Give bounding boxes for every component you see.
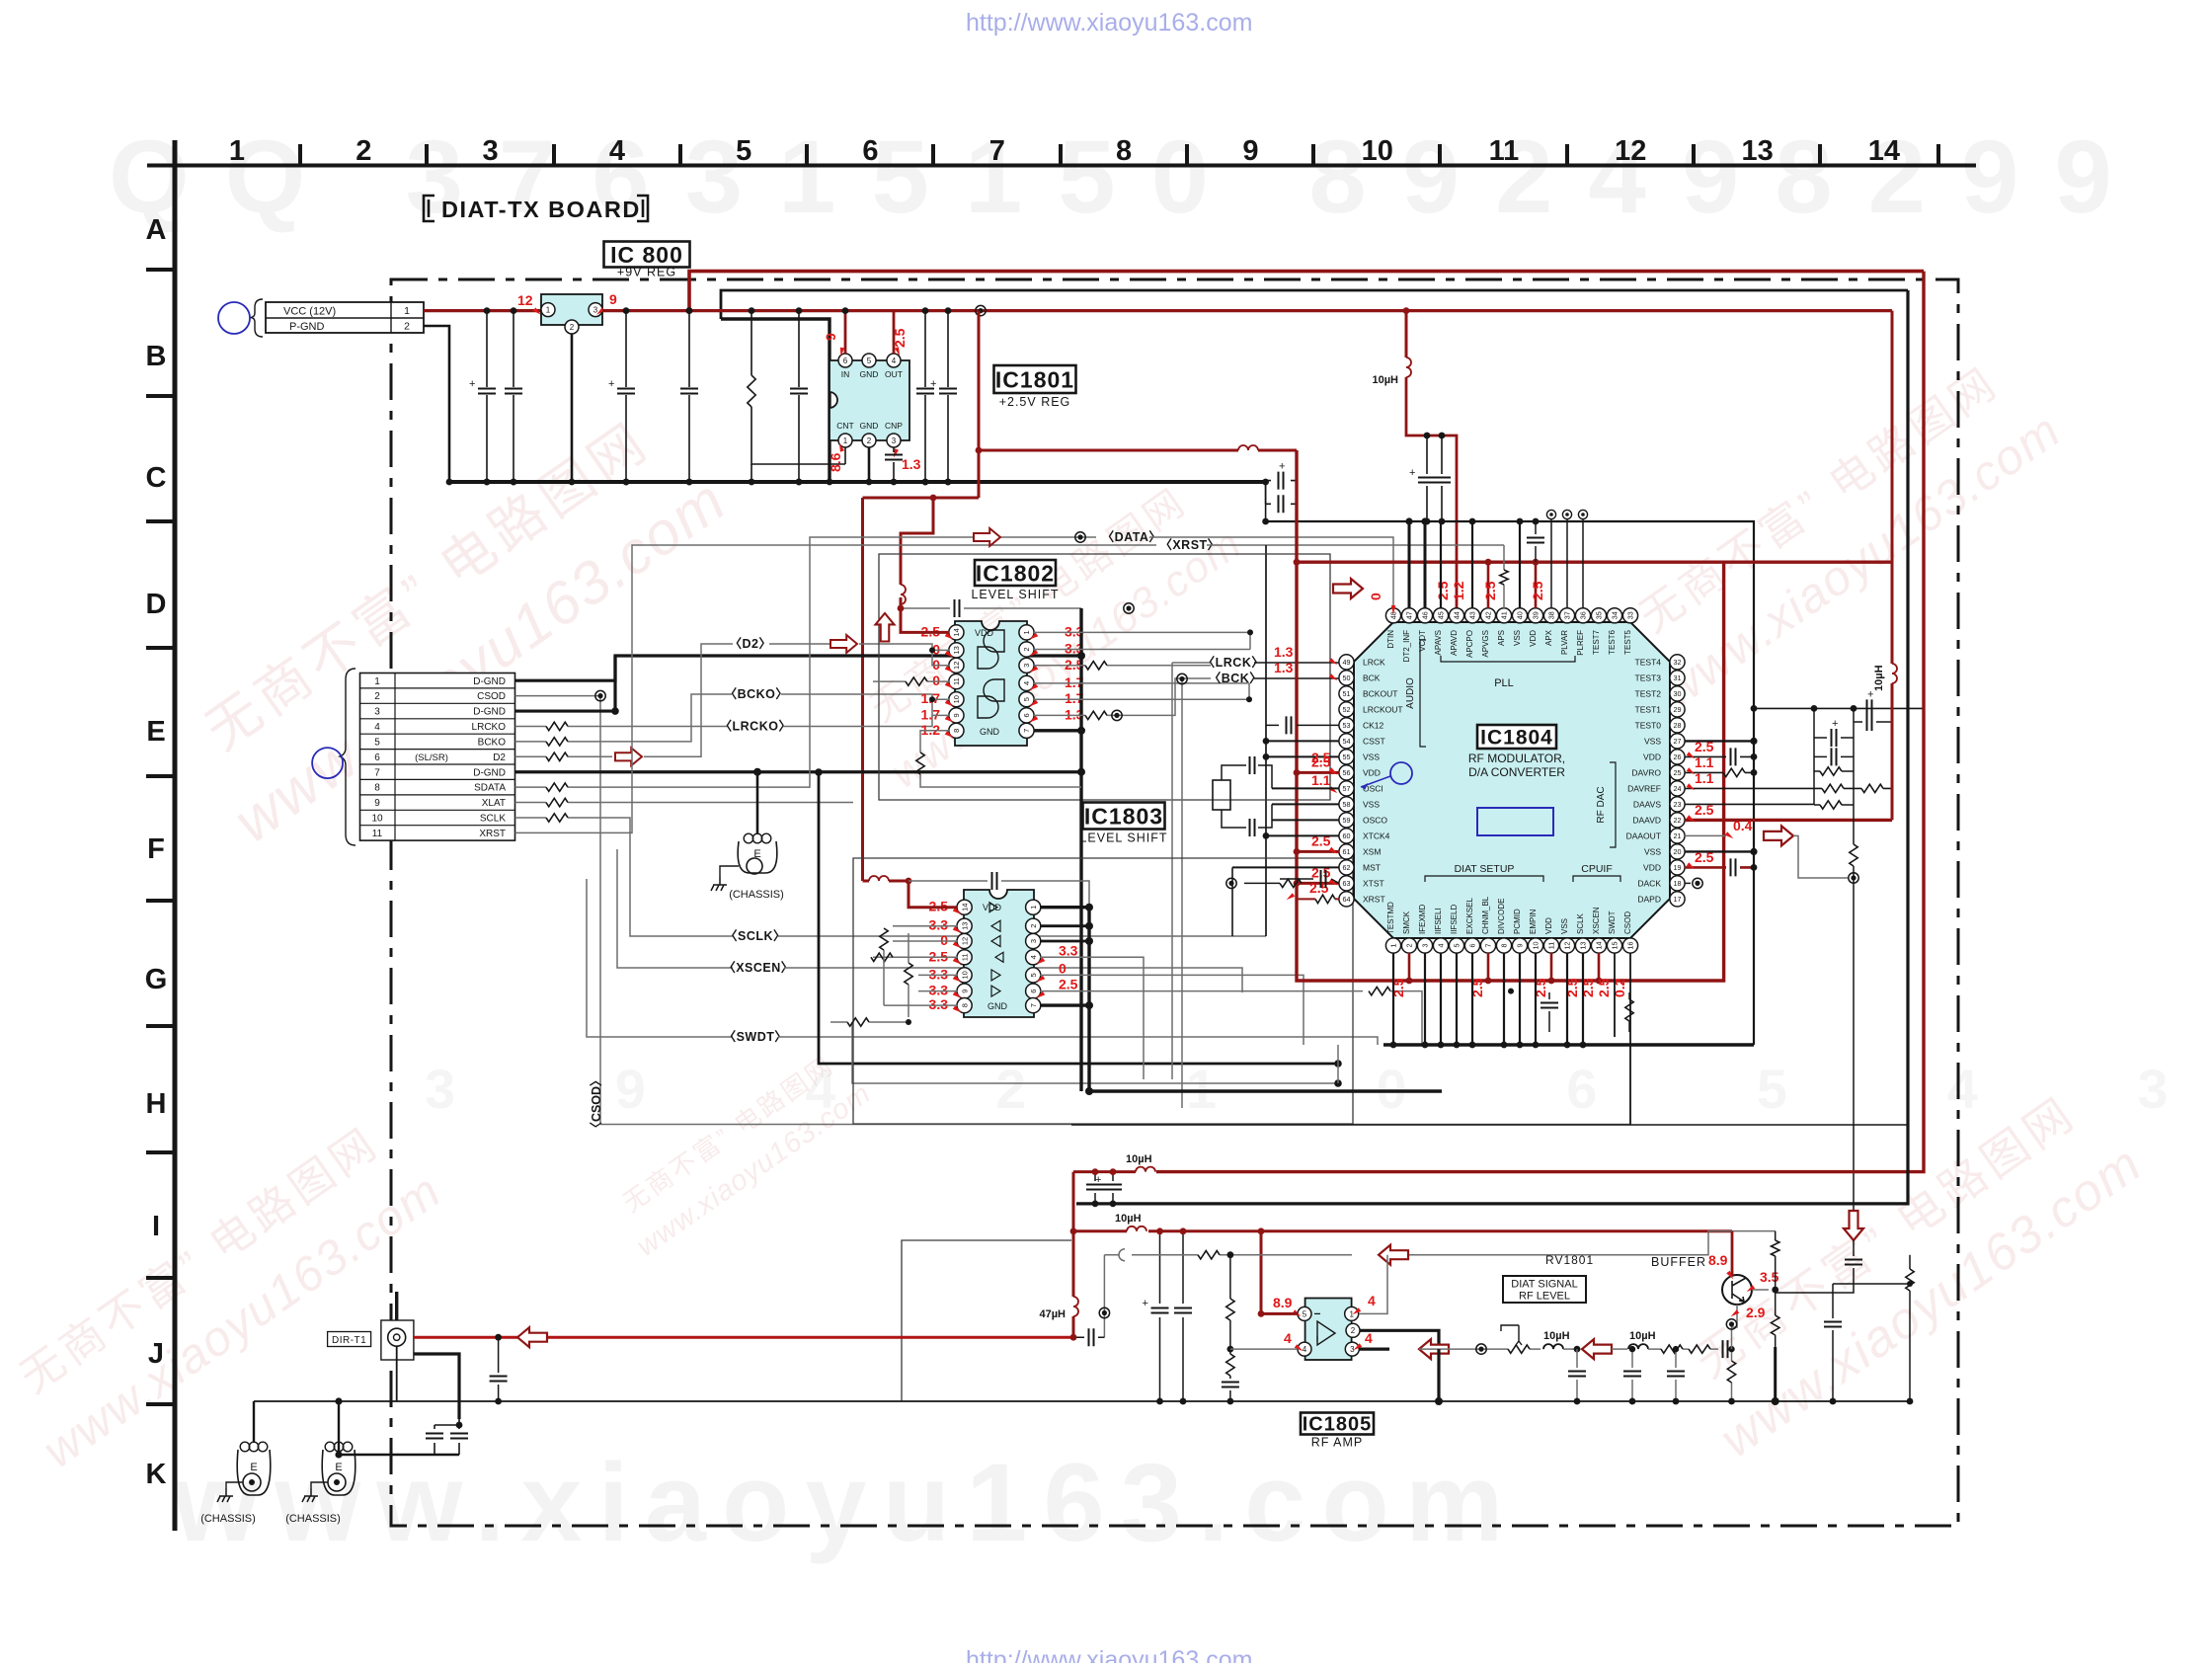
capacitor bbox=[1279, 495, 1284, 513]
svg-text:18: 18 bbox=[1674, 879, 1682, 888]
svg-text:7: 7 bbox=[374, 767, 380, 778]
junction bbox=[1177, 673, 1187, 683]
svg-text:P-GND: P-GND bbox=[289, 321, 325, 333]
svg-text:DIAT SETUP: DIAT SETUP bbox=[1455, 863, 1515, 875]
svg-text:35: 35 bbox=[1595, 611, 1604, 619]
svg-text:12: 12 bbox=[517, 292, 533, 308]
junction bbox=[1439, 433, 1446, 439]
black stubs top pins bbox=[1409, 521, 1425, 608]
svg-text:2: 2 bbox=[1351, 1326, 1356, 1335]
PLL bracket bbox=[1441, 656, 1575, 662]
svg-text:36: 36 bbox=[1579, 611, 1588, 619]
blue annotation circle at OSCI bbox=[1390, 762, 1412, 784]
svg-text:2.5: 2.5 bbox=[1435, 581, 1451, 600]
wire 10uH top right branch bbox=[1405, 311, 1408, 357]
svg-text:1: 1 bbox=[1389, 944, 1398, 948]
junction bbox=[1092, 1201, 1099, 1208]
cap + resistor under IC1804 bbox=[1549, 992, 1629, 1032]
signal-flow arrow bbox=[1844, 1211, 1863, 1240]
svg-text:(SL/SR): (SL/SR) bbox=[415, 752, 448, 763]
resistor bbox=[546, 783, 568, 791]
wire IC1803 right bus bbox=[1040, 908, 1089, 1091]
capacitor bbox=[1086, 1185, 1104, 1190]
svg-text:10: 10 bbox=[371, 814, 383, 825]
wire cap branch bbox=[947, 311, 949, 482]
svg-text:DIR-T1: DIR-T1 bbox=[332, 1335, 366, 1346]
junction bbox=[906, 878, 912, 885]
resistor bbox=[1625, 999, 1633, 1021]
svg-text:49: 49 bbox=[1343, 658, 1351, 667]
svg-text:61: 61 bbox=[1343, 847, 1351, 856]
signal-flow arrow bbox=[517, 1327, 547, 1347]
svg-text:PLREF: PLREF bbox=[1576, 630, 1585, 656]
svg-text:7: 7 bbox=[1484, 944, 1493, 948]
label IC1804 bbox=[1477, 725, 1556, 749]
svg-text:3.5: 3.5 bbox=[1760, 1269, 1779, 1285]
junction bbox=[1294, 880, 1301, 887]
watermark: pink diagonal bbox=[846, 468, 1251, 797]
resistor bbox=[1369, 987, 1390, 994]
capacitor bbox=[1731, 748, 1736, 765]
resistor bbox=[748, 375, 755, 407]
svg-text:VDD: VDD bbox=[1529, 630, 1538, 647]
svg-text:8: 8 bbox=[960, 1003, 969, 1007]
svg-text:〈XSCEN〉: 〈XSCEN〉 bbox=[723, 960, 794, 975]
capacitor bbox=[1250, 756, 1255, 774]
svg-text:APAVS: APAVS bbox=[1434, 630, 1443, 656]
junction bbox=[1574, 1346, 1581, 1353]
wire emitter down bbox=[1732, 1305, 1738, 1349]
svg-text:DAVREF: DAVREF bbox=[1627, 783, 1661, 793]
resistor bbox=[546, 752, 568, 760]
junction bbox=[1294, 769, 1301, 776]
resistor to gnd under buffer bbox=[1731, 1349, 1733, 1401]
right column resistor bbox=[1909, 1255, 1911, 1401]
watermark: pink diagonal bbox=[172, 394, 739, 855]
svg-text:VDD: VDD bbox=[1643, 862, 1661, 872]
label IC 800 bbox=[604, 242, 690, 268]
junction bbox=[1226, 878, 1236, 888]
svg-text:9: 9 bbox=[1516, 944, 1525, 948]
resistor bbox=[546, 798, 568, 806]
junction bbox=[898, 605, 905, 612]
svg-text:14: 14 bbox=[952, 628, 961, 636]
junction bbox=[1485, 978, 1492, 985]
svg-text:IC1803: IC1803 bbox=[1084, 803, 1163, 829]
svg-text:3.3: 3.3 bbox=[929, 966, 949, 982]
svg-text:http://www.xiaoyu163.com: http://www.xiaoyu163.com bbox=[966, 1646, 1252, 1663]
svg-text:2: 2 bbox=[355, 135, 371, 167]
signal-flow arrow bbox=[974, 528, 1000, 546]
pin24 line w/2 resistors bbox=[1685, 787, 1892, 789]
RF DAC bracket bbox=[1610, 762, 1616, 847]
capacitor bbox=[955, 599, 960, 617]
junction bbox=[1907, 1398, 1914, 1405]
wire 12V/9V rail (y=314.6) bbox=[602, 309, 1892, 312]
svg-text:VSS: VSS bbox=[1513, 630, 1522, 646]
junction bbox=[1180, 1227, 1187, 1234]
svg-text:10µH: 10µH bbox=[1543, 1330, 1570, 1342]
svg-text:16: 16 bbox=[1626, 942, 1635, 950]
signal-flow arrow bbox=[1582, 1339, 1612, 1359]
junction bbox=[1390, 1042, 1397, 1049]
svg-text:47: 47 bbox=[1405, 611, 1414, 619]
DIR-T1 connector bbox=[328, 1332, 371, 1347]
junction bbox=[1439, 518, 1446, 525]
junction bbox=[930, 495, 937, 502]
capacitor bbox=[885, 455, 903, 460]
svg-text:11: 11 bbox=[952, 677, 961, 685]
svg-text:VDD: VDD bbox=[1643, 752, 1661, 761]
svg-text:+: + bbox=[1143, 1298, 1148, 1309]
capacitor bbox=[1832, 748, 1837, 765]
node circle (off-board connector) bbox=[218, 302, 250, 334]
svg-text:IFEXMD: IFEXMD bbox=[1418, 905, 1427, 934]
resistor bbox=[1226, 1354, 1234, 1376]
svg-text:7: 7 bbox=[1022, 729, 1031, 733]
svg-text:TEST1: TEST1 bbox=[1635, 704, 1662, 714]
junction bbox=[686, 479, 693, 486]
resistor bbox=[1723, 768, 1745, 776]
signal-flow arrow bbox=[615, 748, 642, 765]
red 2.5V rail J2 bbox=[1073, 1172, 1732, 1231]
svg-text:DIVCODE: DIVCODE bbox=[1497, 899, 1506, 934]
svg-text:(CHASSIS): (CHASSIS) bbox=[729, 889, 784, 901]
enclosure corner RF amp bbox=[902, 1240, 1071, 1401]
svg-text:1: 1 bbox=[1022, 630, 1031, 634]
capacitor bbox=[1222, 1383, 1239, 1387]
svg-text:BCKOUT: BCKOUT bbox=[1363, 688, 1397, 698]
resistor bbox=[1085, 662, 1107, 670]
resistor bbox=[1850, 844, 1857, 866]
svg-text:0.4: 0.4 bbox=[1733, 818, 1753, 833]
pot symbol bbox=[1497, 1348, 1540, 1350]
junction bbox=[446, 479, 453, 486]
junction bbox=[1629, 1346, 1635, 1352]
svg-text:EMPIN: EMPIN bbox=[1529, 909, 1538, 934]
svg-text:3 9 4 2 1 0 6 5 4 3: 3 9 4 2 1 0 6 5 4 3 bbox=[425, 1058, 2212, 1120]
red stubs left pins (VDD/XSM/XTST/XRST) bbox=[1297, 771, 1339, 774]
junction bbox=[511, 307, 517, 314]
svg-text:4: 4 bbox=[1437, 944, 1446, 948]
wire row11 XRST bbox=[515, 545, 1157, 832]
wire LRCK vertical to H bus bbox=[1171, 663, 1173, 1079]
wire pin3 output bbox=[1359, 1347, 1389, 1350]
junction bbox=[1085, 1001, 1093, 1009]
svg-text:22: 22 bbox=[1674, 816, 1682, 825]
pin23 line bbox=[1685, 803, 1814, 805]
svg-text:IN: IN bbox=[841, 369, 850, 379]
wire pin3 LRCK out bbox=[1034, 665, 1211, 667]
gnd line bottom left bbox=[254, 1401, 459, 1455]
capacitor bbox=[1731, 858, 1736, 876]
capacitor bbox=[1667, 1372, 1685, 1377]
svg-text:6: 6 bbox=[374, 752, 380, 763]
svg-text:11: 11 bbox=[1547, 942, 1556, 949]
inductor bbox=[1238, 445, 1258, 450]
svg-text:1.2: 1.2 bbox=[921, 722, 941, 738]
svg-text:IC1802: IC1802 bbox=[976, 560, 1055, 586]
svg-text:1: 1 bbox=[1349, 1309, 1354, 1318]
svg-text:8.6: 8.6 bbox=[828, 452, 843, 472]
resistor bbox=[546, 814, 568, 822]
svg-text:CSOD: CSOD bbox=[477, 691, 506, 702]
svg-text:2.5: 2.5 bbox=[1311, 750, 1331, 765]
label IC1803 bbox=[1083, 803, 1165, 830]
svg-text:2.5: 2.5 bbox=[1695, 802, 1714, 818]
border ruler horizontal line bbox=[147, 164, 1976, 168]
junction bbox=[1227, 1346, 1234, 1353]
svg-text:13: 13 bbox=[1579, 942, 1588, 950]
pin18 DACK bbox=[1685, 882, 1691, 884]
junction bbox=[1258, 1310, 1265, 1317]
svg-text:2.5: 2.5 bbox=[1695, 739, 1714, 754]
svg-text:CSST: CSST bbox=[1363, 736, 1385, 746]
junction bbox=[1247, 629, 1253, 635]
inductor 10uH bbox=[1543, 1344, 1563, 1349]
svg-text:2.5: 2.5 bbox=[892, 328, 908, 348]
svg-text:8: 8 bbox=[374, 783, 380, 794]
svg-text:3.3: 3.3 bbox=[1059, 942, 1078, 958]
junction bbox=[1099, 1307, 1109, 1317]
svg-text:(CHASSIS): (CHASSIS) bbox=[285, 1513, 341, 1525]
svg-text:+9V REG: +9V REG bbox=[617, 266, 676, 279]
junction bbox=[1533, 1042, 1540, 1049]
svg-text:8: 8 bbox=[1116, 135, 1132, 167]
label IC1801 bbox=[994, 365, 1076, 393]
svg-text:RF MODULATOR,: RF MODULATOR, bbox=[1468, 752, 1565, 765]
svg-text:TEST6: TEST6 bbox=[1608, 629, 1617, 654]
svg-text:GND: GND bbox=[987, 1001, 1008, 1011]
cap red to feedback bbox=[1073, 1336, 1104, 1338]
filter caps to gnd bbox=[1576, 1349, 1578, 1401]
inductor bbox=[1127, 1227, 1146, 1231]
junction bbox=[1077, 768, 1085, 776]
resistor bbox=[546, 738, 568, 746]
svg-text:+: + bbox=[1095, 1174, 1101, 1186]
capacitor bbox=[916, 389, 934, 394]
inductor bbox=[869, 876, 889, 881]
svg-text:9: 9 bbox=[960, 990, 969, 993]
junction bbox=[511, 479, 517, 486]
wire IC1801 pin2 bbox=[868, 447, 871, 482]
junction bbox=[1403, 307, 1410, 314]
capacitor bbox=[992, 872, 997, 890]
svg-text:37: 37 bbox=[1563, 611, 1572, 619]
svg-text:APVGS: APVGS bbox=[1481, 630, 1490, 658]
junction bbox=[334, 1479, 340, 1485]
wire collector from rail bbox=[1731, 1231, 1734, 1276]
svg-text:52: 52 bbox=[1343, 705, 1351, 714]
svg-text:+: + bbox=[930, 378, 936, 390]
svg-text:RF LEVEL: RF LEVEL bbox=[1519, 1291, 1570, 1303]
svg-text:6: 6 bbox=[862, 135, 878, 167]
capacitor bbox=[1287, 716, 1292, 734]
svg-text:17: 17 bbox=[1674, 895, 1682, 904]
pin20 VSS bbox=[1685, 850, 1754, 852]
svg-text:33: 33 bbox=[1626, 611, 1635, 619]
svg-text:APS: APS bbox=[1497, 630, 1506, 646]
capacitor bbox=[1104, 1185, 1122, 1190]
IC1803 enclosure bbox=[853, 858, 1353, 1124]
svg-text:VDD: VDD bbox=[1363, 767, 1381, 777]
svg-text:CHNM_BL: CHNM_BL bbox=[1481, 896, 1490, 934]
svg-text:54: 54 bbox=[1343, 737, 1351, 746]
svg-text:LEVEL SHIFT: LEVEL SHIFT bbox=[1079, 831, 1167, 845]
junction bbox=[866, 479, 873, 486]
wire IC800 pin2 to gnd bbox=[571, 334, 574, 482]
inductor bbox=[1136, 1167, 1155, 1172]
svg-text:11: 11 bbox=[1489, 135, 1520, 167]
svg-text:63: 63 bbox=[1343, 879, 1351, 888]
svg-text:D-GND: D-GND bbox=[473, 676, 506, 687]
svg-text:3: 3 bbox=[1022, 664, 1031, 668]
svg-text:4: 4 bbox=[374, 722, 380, 733]
wire 2.5V to level shifters bbox=[863, 497, 980, 500]
svg-text:4: 4 bbox=[892, 356, 897, 365]
junction bbox=[1246, 696, 1252, 702]
IC1803 body bbox=[964, 890, 1034, 1017]
svg-text:9: 9 bbox=[374, 798, 380, 809]
caps at IC1804 top bbox=[1427, 436, 1442, 521]
svg-text:3: 3 bbox=[374, 707, 380, 718]
resistor bbox=[1906, 1269, 1914, 1291]
resistor bbox=[1280, 879, 1302, 887]
svg-text:6: 6 bbox=[843, 356, 848, 365]
chassis E component (F row) bbox=[738, 841, 777, 873]
svg-text:〈CSOD〉: 〈CSOD〉 bbox=[589, 1073, 603, 1134]
svg-text:13: 13 bbox=[960, 922, 969, 930]
svg-text:0: 0 bbox=[1368, 593, 1383, 600]
resistor bbox=[1820, 801, 1842, 809]
junction bbox=[1750, 848, 1757, 855]
svg-text:DAAVD: DAAVD bbox=[1632, 815, 1661, 825]
svg-text:TEST3: TEST3 bbox=[1635, 673, 1662, 682]
svg-text:MST: MST bbox=[1363, 862, 1381, 872]
inductor bbox=[1073, 1297, 1078, 1316]
resistor bbox=[1727, 1361, 1735, 1383]
svg-text:14: 14 bbox=[1595, 942, 1604, 950]
svg-text:6: 6 bbox=[1029, 990, 1038, 993]
svg-text:44: 44 bbox=[1453, 611, 1461, 619]
junction bbox=[891, 479, 898, 486]
svg-text:B: B bbox=[146, 341, 167, 372]
wire row2 CSOD bbox=[515, 696, 601, 1125]
junction bbox=[1085, 1087, 1093, 1095]
wire cap branch bbox=[798, 311, 800, 482]
svg-text:19: 19 bbox=[1674, 863, 1682, 872]
svg-text:1.1: 1.1 bbox=[1695, 770, 1714, 786]
junction bbox=[1533, 559, 1540, 566]
resistor bbox=[847, 1018, 869, 1026]
wire right red vertical (9V) bbox=[1156, 272, 1924, 1172]
watermark: pink diagonal bbox=[606, 1042, 877, 1263]
svg-text:26: 26 bbox=[1674, 752, 1682, 761]
svg-text:1: 1 bbox=[404, 305, 410, 317]
junction bbox=[1263, 753, 1270, 760]
svg-text:DIAT-TX BOARD: DIAT-TX BOARD bbox=[441, 197, 641, 222]
resistor bbox=[1085, 711, 1107, 719]
junction bbox=[796, 307, 803, 314]
resistor bbox=[905, 963, 912, 985]
capacitor bbox=[1723, 1340, 1728, 1358]
svg-text:50: 50 bbox=[1343, 673, 1351, 682]
right cluster caps/resistors bbox=[1754, 707, 1924, 709]
svg-text:5: 5 bbox=[867, 356, 872, 365]
junction bbox=[1596, 978, 1603, 985]
svg-text:10µH: 10µH bbox=[1372, 374, 1398, 386]
capacitor bbox=[426, 1434, 443, 1439]
svg-text:www.xiaoyu163.com: www.xiaoyu163.com bbox=[172, 1441, 1519, 1564]
junction bbox=[249, 1479, 255, 1485]
svg-text:+: + bbox=[1409, 467, 1415, 479]
junction bbox=[623, 479, 630, 486]
svg-text:IIFSELD: IIFSELD bbox=[1450, 905, 1459, 934]
svg-text:46: 46 bbox=[1421, 611, 1430, 619]
svg-text:31: 31 bbox=[1674, 673, 1682, 682]
svg-text:10: 10 bbox=[1362, 135, 1393, 167]
svg-text:AUDIO: AUDIO bbox=[1405, 677, 1416, 709]
junction bbox=[1077, 727, 1085, 735]
resistor bbox=[916, 752, 924, 774]
junction bbox=[1851, 705, 1857, 712]
svg-text:1.3: 1.3 bbox=[1274, 660, 1294, 675]
junction bbox=[1294, 848, 1301, 855]
svg-text:1.7: 1.7 bbox=[921, 706, 941, 722]
svg-text:+: + bbox=[1832, 718, 1838, 730]
wire cap branch bbox=[688, 311, 690, 482]
junction bbox=[1334, 1079, 1342, 1087]
wire row7 D-GND bbox=[515, 770, 1082, 773]
title DIAT-TX BOARD bbox=[424, 196, 434, 221]
wire SWDT long bbox=[587, 879, 733, 1037]
svg-text:2.5: 2.5 bbox=[1482, 581, 1498, 600]
svg-text:10: 10 bbox=[952, 695, 961, 703]
capacitor bbox=[1151, 1308, 1169, 1313]
capacitor bbox=[1089, 1328, 1094, 1346]
capacitor bbox=[617, 389, 635, 394]
svg-text:3: 3 bbox=[892, 436, 897, 445]
svg-text:VCC (12V): VCC (12V) bbox=[283, 306, 336, 318]
junction bbox=[1751, 705, 1758, 712]
svg-text:PLVAR: PLVAR bbox=[1560, 630, 1569, 655]
IC1804 RF modulator / D/A converter bbox=[1354, 622, 1670, 938]
svg-text:5: 5 bbox=[1029, 973, 1038, 977]
junction bbox=[1263, 832, 1270, 839]
junction bbox=[1849, 873, 1858, 883]
svg-text:14: 14 bbox=[960, 904, 969, 911]
wire IC1801 pin1 CNT bbox=[844, 447, 846, 464]
svg-text:8: 8 bbox=[1500, 944, 1509, 948]
svg-text:10: 10 bbox=[960, 971, 969, 979]
resistor bbox=[1689, 1345, 1710, 1353]
junction bbox=[484, 307, 491, 314]
capacitor bbox=[1832, 729, 1837, 747]
svg-text:5: 5 bbox=[1022, 697, 1031, 701]
IC1805 supply caps bbox=[1159, 1231, 1161, 1401]
wire GND rail bbox=[449, 480, 1266, 484]
black stubs left pins bbox=[1232, 741, 1339, 867]
junction bbox=[1693, 878, 1702, 888]
svg-text:SCLK: SCLK bbox=[480, 814, 506, 825]
svg-text:DTIN: DTIN bbox=[1386, 630, 1395, 649]
DIAT SETUP bracket bbox=[1425, 876, 1543, 882]
svg-text:XSM: XSM bbox=[1363, 846, 1381, 856]
resistor bbox=[1820, 767, 1842, 775]
svg-text:TEST0: TEST0 bbox=[1635, 720, 1662, 730]
svg-text:64: 64 bbox=[1343, 895, 1351, 904]
svg-text:DACK: DACK bbox=[1637, 878, 1661, 888]
